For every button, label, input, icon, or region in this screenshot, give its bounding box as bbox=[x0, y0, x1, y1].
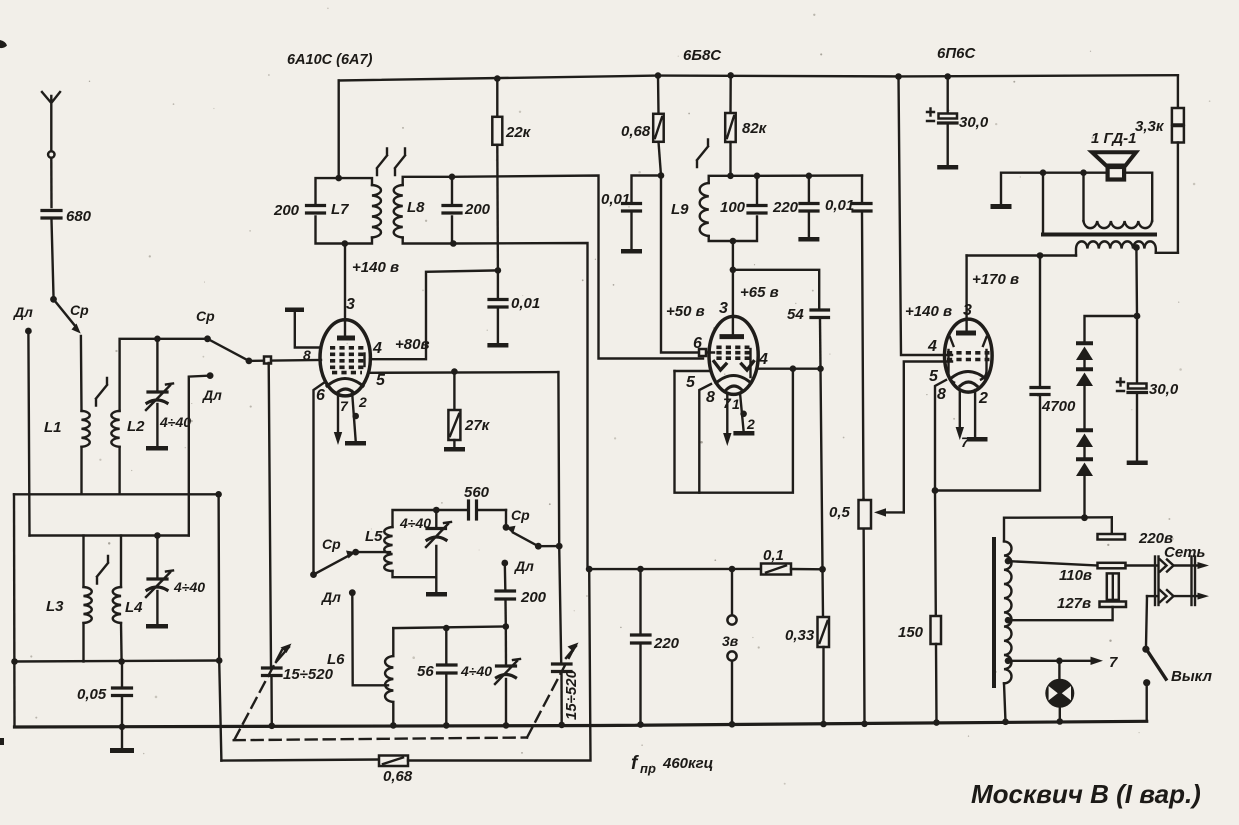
resistor 3,3к bbox=[1135, 75, 1184, 253]
wire contact to L5 bbox=[356, 551, 390, 553]
wire bus corner down to L7 bbox=[338, 81, 340, 179]
svg-text:6: 6 bbox=[316, 387, 325, 404]
node sec left bbox=[1080, 169, 1087, 176]
power transformer winding bbox=[1004, 541, 1012, 683]
V2 pin 2 cathode ground bbox=[740, 393, 744, 431]
capacitor 30,0 (filter a) bbox=[927, 77, 989, 170]
svg-text:560: 560 bbox=[464, 484, 490, 501]
capacitor 560 bbox=[436, 484, 506, 519]
trimmer capacitor 4÷40 (osc) bbox=[399, 515, 451, 597]
capacitor 220 (detector) bbox=[772, 176, 819, 242]
node cathode junction bbox=[932, 487, 939, 494]
svg-text:7: 7 bbox=[340, 398, 349, 414]
wire AVC down to V2 grid bbox=[661, 176, 714, 353]
svg-text:5: 5 bbox=[686, 374, 696, 391]
IF transformer L9 box bbox=[709, 176, 757, 203]
adjust slash L9 bbox=[697, 140, 708, 168]
svg-text:0,1: 0,1 bbox=[763, 547, 784, 564]
switch antenna band (pivot) bbox=[50, 296, 57, 303]
scan speckle marks bbox=[0, 40, 7, 745]
wire V2 pin8 bbox=[699, 384, 711, 493]
svg-text:3: 3 bbox=[963, 302, 972, 319]
wire L6 bottom to bus bbox=[392, 702, 394, 725]
svg-text:+170 в: +170 в bbox=[972, 271, 1019, 288]
wire rectifier to transformer top bbox=[1083, 475, 1085, 517]
wire primary right to 3.3k bbox=[1156, 252, 1178, 254]
capacitor 30,0 (filter b) bbox=[1117, 316, 1179, 465]
node sec shield bbox=[1040, 169, 1047, 176]
svg-text:Дл: Дл bbox=[13, 304, 33, 320]
svg-text:Ср: Ср bbox=[196, 308, 215, 324]
svg-text:3,3к: 3,3к bbox=[1135, 118, 1165, 135]
wire plug to switch bbox=[1146, 596, 1147, 646]
V2 pin 7 heater arrow bbox=[726, 394, 728, 438]
diode D1 bbox=[1076, 343, 1093, 360]
wire diode feedback box bbox=[675, 370, 711, 372]
capacitor 56 bbox=[417, 628, 456, 725]
potentiometer 0,5 volume bbox=[829, 499, 904, 724]
wire cathode to 4700 bbox=[935, 396, 1040, 491]
node terminal Дл (band filter) bbox=[207, 372, 214, 379]
svg-text:+140 в: +140 в bbox=[905, 303, 952, 320]
wire +65 to 54 cap bbox=[733, 270, 819, 308]
V1 pin 8 grid wire bbox=[249, 359, 321, 362]
svg-text:220: 220 bbox=[653, 635, 680, 652]
transformer primary bbox=[1076, 241, 1156, 255]
svg-text:Дл: Дл bbox=[321, 589, 341, 605]
node pickup branch bbox=[729, 566, 736, 573]
V3 grid side marks bbox=[950, 337, 987, 346]
node screen junction bbox=[495, 267, 502, 274]
node blade-grid junction bbox=[246, 358, 253, 365]
inductor L9 bbox=[700, 183, 709, 236]
node tap/filter bbox=[1134, 313, 1141, 320]
svg-text:Выкл: Выкл bbox=[1171, 668, 1213, 685]
wire V3 anode up to +170 line bbox=[967, 254, 1040, 256]
wire rectifier branch bbox=[1085, 316, 1138, 341]
node bus transformer bbox=[1002, 719, 1009, 726]
node 220 AF top bbox=[637, 566, 644, 573]
capacitor 0,05 bbox=[77, 662, 132, 728]
svg-text:3: 3 bbox=[346, 296, 355, 313]
wire Дл terminal to line B bbox=[189, 376, 210, 536]
node line A corner bbox=[215, 491, 222, 498]
svg-text:5: 5 bbox=[929, 368, 939, 385]
node pin4-b bbox=[817, 365, 824, 372]
svg-text:L9: L9 bbox=[671, 201, 689, 218]
wire antenna to C680 bbox=[50, 158, 53, 207]
V1 shield bar ground bbox=[285, 308, 321, 348]
svg-text:L8: L8 bbox=[407, 199, 425, 216]
V1 cathode arcs bbox=[327, 379, 363, 394]
node L7 bottom / V1 anode bbox=[342, 240, 349, 247]
switch Выкл bbox=[1142, 646, 1212, 722]
V3 pin7 heater arrow bbox=[959, 390, 961, 432]
node bus pickup bbox=[729, 721, 736, 728]
svg-text:0,68: 0,68 bbox=[621, 123, 651, 140]
capacitor 680 bbox=[42, 208, 92, 225]
node bus lamp bbox=[1057, 718, 1064, 725]
svg-text:150: 150 bbox=[898, 624, 924, 641]
V3 beam plates bbox=[949, 350, 987, 383]
V2 diode plates bbox=[714, 362, 754, 371]
svg-text:4: 4 bbox=[372, 340, 382, 357]
wire V3 anode feed from bus bbox=[899, 77, 953, 356]
svg-text:Ср: Ср bbox=[322, 536, 341, 552]
wire V1 pin5 to oscillator bbox=[369, 371, 558, 374]
wire line A bbox=[14, 493, 219, 495]
svg-text:8: 8 bbox=[303, 347, 311, 363]
V2 cathode arcs bbox=[716, 376, 751, 391]
node L5 top / 560 bbox=[433, 507, 440, 514]
node bus-0.05 bbox=[119, 724, 126, 731]
switch blade to Ср bbox=[54, 299, 77, 327]
svg-text:0,01: 0,01 bbox=[825, 197, 854, 214]
wire V1 pin6 down to osc switch bbox=[314, 382, 326, 575]
oscillator coil L5 box bbox=[393, 510, 437, 527]
svg-text:3в: 3в bbox=[722, 633, 739, 649]
svg-text:+80в: +80в bbox=[395, 336, 430, 353]
svg-text:15÷520: 15÷520 bbox=[563, 669, 580, 720]
capacitor 0,01 (screen bypass) bbox=[487, 270, 540, 347]
svg-text:27к: 27к bbox=[464, 417, 491, 434]
svg-text:110в: 110в bbox=[1059, 567, 1092, 584]
node tap 110 bbox=[1005, 558, 1012, 565]
wire L4 bottom bbox=[120, 623, 123, 662]
tube V3 6П6С envelope bbox=[945, 319, 993, 392]
mains plug Сеть bbox=[1126, 544, 1210, 605]
svg-text:L5: L5 bbox=[365, 528, 383, 545]
svg-text:30,0: 30,0 bbox=[959, 114, 989, 131]
node terminal Дл (osc) bbox=[501, 560, 508, 567]
svg-text:82к: 82к bbox=[742, 120, 768, 137]
svg-text:4÷40: 4÷40 bbox=[399, 515, 431, 531]
wire L3 bottom bbox=[82, 623, 84, 662]
svg-text:4700: 4700 bbox=[1041, 398, 1076, 415]
node 27k top bbox=[451, 368, 458, 375]
svg-text:6: 6 bbox=[693, 335, 702, 352]
pilot lamp bbox=[1045, 661, 1074, 722]
speaker 1ГД-1 bbox=[1092, 152, 1136, 179]
svg-text:Сеть: Сеть bbox=[1164, 544, 1206, 561]
contact 220в bbox=[1098, 517, 1174, 547]
diode D4 bbox=[1076, 446, 1093, 476]
diode D2 bbox=[1076, 360, 1093, 387]
transformer secondary (speaker) bbox=[1084, 173, 1153, 228]
inductor L1 bbox=[82, 411, 90, 447]
dashed gang coupling line bbox=[234, 650, 573, 740]
inductor L2 bbox=[111, 411, 119, 447]
V1 pin 3 top cap bbox=[344, 246, 346, 336]
V1 grid rows bbox=[330, 348, 364, 373]
antenna bbox=[42, 92, 60, 150]
diode D3 bbox=[1076, 430, 1093, 447]
svg-text:L4: L4 bbox=[125, 599, 143, 616]
svg-text:4: 4 bbox=[758, 351, 768, 368]
adjust slash L1/L2 bbox=[96, 378, 107, 406]
V1 pin 7 heater arrow bbox=[337, 392, 339, 437]
node bus-82k bbox=[727, 72, 734, 79]
svg-text:3: 3 bbox=[719, 300, 728, 317]
svg-text:7: 7 bbox=[1109, 654, 1118, 671]
V3 pin2 ground bar bbox=[974, 390, 976, 437]
svg-text:+50 в: +50 в bbox=[666, 303, 705, 320]
contact 110в bbox=[1098, 563, 1126, 569]
node AVC junction bbox=[658, 172, 665, 179]
svg-text:30,0: 30,0 bbox=[1149, 381, 1179, 398]
capacitor 4700 bbox=[1031, 256, 1076, 416]
resistor 27к bbox=[444, 372, 491, 452]
svg-text:Дл: Дл bbox=[514, 558, 534, 574]
variable capacitor 15÷520 (ant gang) bbox=[263, 363, 334, 726]
svg-text:0,05: 0,05 bbox=[77, 686, 107, 703]
node bus L6 bbox=[390, 722, 397, 729]
svg-text:Москвич В (I вар.): Москвич В (I вар.) bbox=[971, 779, 1201, 809]
node osc contact Ср (right) bbox=[503, 524, 510, 531]
capacitor 200 (osc Дл) bbox=[496, 563, 547, 627]
variable capacitor 15÷520 (osc gang) bbox=[553, 643, 581, 725]
node bus 150 bbox=[933, 719, 940, 726]
node L7 top bbox=[335, 175, 342, 182]
switch contact Ср (band 2) bbox=[204, 335, 211, 342]
node tap heater bbox=[1005, 658, 1012, 665]
capacitor 100 bbox=[720, 199, 766, 216]
svg-text:+140 в: +140 в bbox=[352, 259, 399, 276]
wire V1 pin4 screen to 22k node bbox=[370, 270, 498, 359]
wire tap 110в bbox=[1008, 561, 1098, 565]
capacitor 200 (L8) bbox=[443, 201, 491, 218]
node 0.33 top bbox=[819, 566, 826, 573]
resistor 0,1 bbox=[761, 547, 823, 575]
node bus gang1 bbox=[269, 723, 276, 730]
wire Дл to L6 tap bbox=[352, 593, 388, 686]
V3 cathode arcs bbox=[950, 372, 986, 387]
node trimmer C1 top bbox=[154, 336, 161, 343]
svg-text:15÷520: 15÷520 bbox=[283, 666, 334, 683]
node bus-0.68 bbox=[655, 72, 662, 79]
wire L6 trimmer column down bbox=[505, 627, 508, 665]
V3 grid rows bbox=[947, 353, 990, 360]
switch blade osc right bbox=[513, 533, 538, 547]
power transformer core bbox=[992, 539, 996, 686]
wire L9 bottom to V2 anode bbox=[732, 241, 734, 334]
node bus 220AF bbox=[637, 721, 644, 728]
V1 pin 2 cathode to ground bbox=[352, 391, 356, 441]
wire shield drop bbox=[1042, 173, 1044, 234]
contact 127в bbox=[1100, 602, 1127, 608]
fuse bbox=[1107, 573, 1119, 600]
tube V1 6А10С envelope bbox=[320, 320, 370, 396]
wire speaker top line bbox=[1041, 171, 1108, 173]
svg-text:L7: L7 bbox=[331, 201, 349, 218]
node osc contact Ср bbox=[352, 549, 359, 556]
svg-text:0,01: 0,01 bbox=[511, 295, 540, 312]
node 56 top bbox=[443, 625, 450, 632]
node grid column junction bbox=[556, 543, 563, 550]
svg-text:100: 100 bbox=[720, 199, 746, 216]
wire osc grid column (V1 pin5 down to gang C) bbox=[557, 372, 560, 546]
svg-text:8: 8 bbox=[706, 389, 715, 406]
resistor 0,68 (osc tracking) bbox=[379, 756, 413, 786]
svg-text:200: 200 bbox=[464, 201, 491, 218]
svg-text:+65 в: +65 в bbox=[740, 284, 779, 301]
IF transformer L7 box bbox=[316, 178, 373, 243]
inductor L5 bbox=[384, 527, 392, 571]
wire tap down bbox=[1135, 248, 1138, 317]
wire heater tap arrow 7 bbox=[1008, 654, 1118, 671]
node 200/L6 top line bbox=[503, 623, 510, 630]
capacitor 220 (AF) bbox=[632, 569, 680, 725]
svg-text:220: 220 bbox=[772, 199, 799, 216]
svg-text:L3: L3 bbox=[46, 598, 64, 615]
svg-text:0,33: 0,33 bbox=[785, 627, 815, 644]
wire L2 bottom to line A bbox=[118, 447, 120, 495]
wire 0.68 to grid column bbox=[408, 569, 591, 760]
V2 grid bracket bbox=[749, 349, 751, 377]
node AF line left bbox=[586, 566, 593, 573]
resistor 82к bbox=[725, 75, 767, 175]
svg-text:2: 2 bbox=[746, 416, 755, 432]
node left return bbox=[11, 658, 18, 665]
node L8 top bbox=[449, 174, 456, 181]
wire L8 bottom to detector column bbox=[453, 243, 587, 569]
svg-text:680: 680 bbox=[66, 208, 92, 225]
oscillator coil L6 left edge bbox=[392, 628, 394, 656]
svg-text:L1: L1 bbox=[44, 419, 62, 436]
wire L3 top from line B bbox=[82, 536, 84, 588]
inductor L7 bbox=[372, 185, 381, 238]
wire AF line bbox=[589, 568, 761, 571]
trimmer capacitor 4÷40 (padder) bbox=[460, 659, 520, 725]
node 220 top bbox=[806, 173, 813, 180]
inductor L8 bbox=[394, 185, 403, 238]
node bus padder bbox=[503, 722, 510, 729]
trimmer capacitor 4÷40 (C2) bbox=[146, 536, 205, 629]
ground (speaker winding) bbox=[991, 173, 1042, 209]
svg-text:0,01: 0,01 bbox=[601, 191, 630, 208]
svg-text:5: 5 bbox=[376, 372, 386, 389]
node osc pivot right bbox=[535, 543, 542, 550]
node L9 top right bbox=[754, 173, 761, 180]
svg-text:4: 4 bbox=[927, 338, 937, 355]
node bus 56 bbox=[443, 722, 450, 729]
wire winding bottom to bus bbox=[1004, 683, 1006, 722]
svg-text:2: 2 bbox=[358, 394, 367, 410]
svg-text:4÷40: 4÷40 bbox=[460, 663, 492, 679]
svg-text:2: 2 bbox=[978, 390, 988, 407]
wire +170 into primary bbox=[1040, 254, 1076, 256]
wire anode col V2 down (0.1 line up) bbox=[821, 369, 823, 570]
node bus-22k bbox=[494, 75, 501, 82]
V3 pin3 top bbox=[965, 256, 967, 332]
IF transformer L8 box bbox=[403, 177, 452, 244]
resistor 150 bbox=[898, 491, 941, 723]
wire detector line bbox=[757, 174, 862, 177]
node antenna connector bbox=[48, 151, 54, 157]
inductor L6 bbox=[385, 656, 393, 702]
svg-text:0,5: 0,5 bbox=[829, 504, 851, 521]
resistor 0,33 bbox=[785, 569, 829, 724]
wire 560 down to contact bbox=[505, 510, 507, 525]
wire top HT bus bbox=[339, 75, 1178, 80]
svg-text:6Б8С: 6Б8С bbox=[683, 47, 722, 64]
node rect/mains junction bbox=[1081, 514, 1088, 521]
wire Дл contact down to line B bbox=[28, 333, 29, 536]
wire L1 bottom to line A bbox=[80, 447, 82, 495]
node bus-C30 bbox=[944, 73, 951, 80]
capacitor 0,01 (AVC bypass) bbox=[601, 176, 661, 254]
node terminal Дл (L6 tap) bbox=[349, 589, 356, 596]
ground below bus bbox=[110, 727, 134, 753]
node contact Дл (antenna) bbox=[25, 328, 32, 335]
wire line B bbox=[30, 534, 189, 536]
svg-text:200: 200 bbox=[273, 202, 300, 219]
switch osc Ср pivot bbox=[310, 571, 317, 578]
node L9 top bbox=[727, 173, 734, 180]
svg-text:22к: 22к bbox=[505, 124, 532, 141]
svg-text:56: 56 bbox=[417, 663, 434, 680]
resistor 0,68 (AVC) bbox=[621, 76, 664, 176]
wire net return y=661 bbox=[15, 661, 220, 662]
capacitor 54 bbox=[787, 306, 829, 369]
svg-text:460кгц: 460кгц bbox=[662, 755, 713, 772]
wire L4 top from line B bbox=[120, 536, 122, 588]
tube V2 6Б8С envelope bbox=[709, 316, 758, 394]
svg-text:7: 7 bbox=[961, 434, 970, 450]
capacitor 0,01 (coupling to volume) bbox=[825, 176, 871, 500]
wire V2 pin4 diode line bbox=[758, 368, 821, 370]
wire between diode pairs bbox=[1083, 385, 1085, 428]
wire L2 top to switch contact bbox=[120, 339, 208, 411]
wire ground bus bottom bbox=[15, 721, 1147, 727]
adjust slash L3/L4 bbox=[97, 556, 108, 584]
svg-text:пр: пр bbox=[640, 761, 656, 776]
svg-text:1: 1 bbox=[732, 396, 740, 412]
svg-text:200: 200 bbox=[520, 589, 547, 606]
svg-text:127в: 127в bbox=[1057, 595, 1091, 612]
node primary tap bbox=[1133, 244, 1140, 251]
wire pivot to grid column bbox=[538, 545, 559, 548]
wire mains top line bbox=[1004, 517, 1112, 541]
wire L6 top line bbox=[393, 627, 506, 629]
inductor L3 bbox=[84, 587, 92, 623]
node bus 0.33 bbox=[820, 721, 827, 728]
svg-text:6А10С (6А7): 6А10С (6А7) bbox=[287, 52, 373, 68]
node bus pot bbox=[861, 721, 868, 728]
node L8 bottom bbox=[450, 240, 457, 247]
switch blade to V1 grid line bbox=[208, 339, 249, 361]
node line B trimmer2 bbox=[154, 532, 161, 539]
svg-text:8: 8 bbox=[937, 386, 946, 403]
trimmer capacitor 4÷40 (C1) bbox=[146, 339, 191, 451]
node right return bbox=[216, 657, 223, 664]
svg-text:Дл: Дл bbox=[202, 387, 222, 403]
node bus gang2 bbox=[558, 722, 565, 729]
transformer core bar bbox=[1043, 233, 1155, 237]
adjust slashes L7/L8 bbox=[377, 149, 405, 176]
switch blade osc left bbox=[314, 556, 349, 575]
svg-text:L2: L2 bbox=[127, 418, 145, 435]
wire left outer vertical bbox=[13, 494, 16, 727]
wire padder return (0.68 line) bbox=[221, 760, 378, 761]
capacitor 200 (L7) bbox=[273, 202, 325, 219]
node L4/C0.05 bbox=[118, 658, 125, 665]
svg-text:4÷40: 4÷40 bbox=[173, 579, 205, 595]
node tap 127 bbox=[1005, 617, 1012, 624]
wire V3 grid from pot wiper bbox=[904, 362, 952, 513]
svg-text:0,68: 0,68 bbox=[383, 768, 413, 785]
svg-text:6П6С: 6П6С bbox=[937, 45, 976, 62]
